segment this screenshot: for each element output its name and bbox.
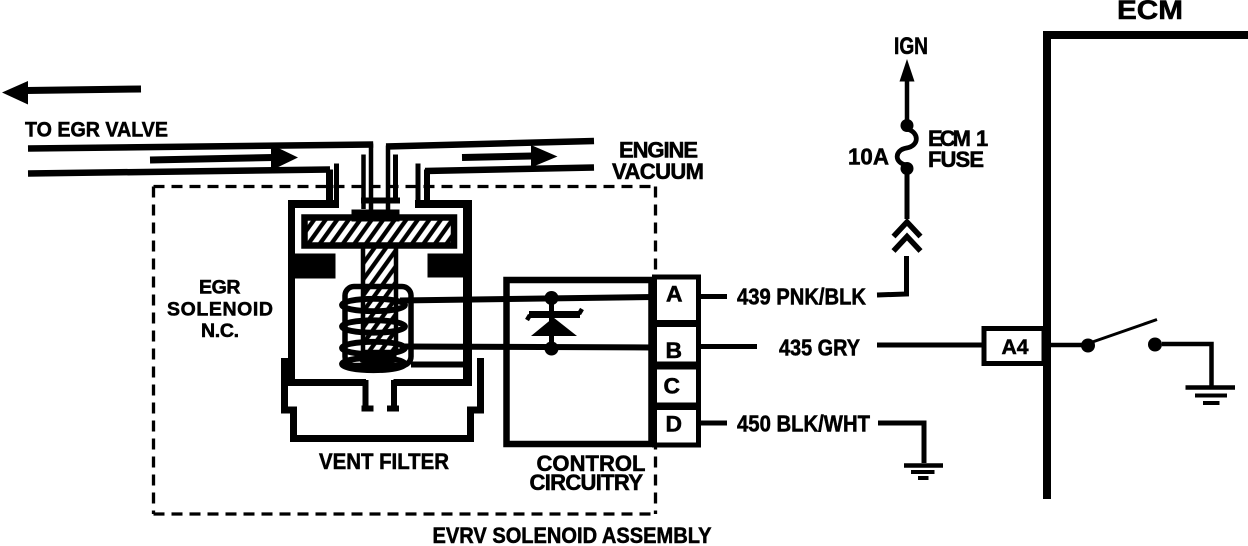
pipe: engine vacuum upper wall [386, 141, 594, 147]
svg-text:B: B [666, 338, 683, 363]
svg-text:D: D [666, 412, 683, 437]
connector: terminal C [655, 367, 699, 405]
solenoid U1: tube base bar [361, 198, 400, 204]
connector: ECM pin A4 box [984, 329, 1044, 364]
solenoid U1: stem cap joining tubes to armature [352, 210, 400, 222]
svg-text:IGN: IGN [894, 33, 928, 60]
svg-text:CIRCUITRY: CIRCUITRY [530, 470, 644, 495]
node: ENGINE VACUUM label [612, 138, 704, 185]
node: CONTROL CIRCUITRY label [530, 451, 646, 495]
svg-text:FUSE: FUSE [928, 147, 984, 172]
wire: 435 GRY to ECM pin A4 [877, 343, 983, 348]
ground: 450 BLK/WHT ground symbol [904, 466, 943, 479]
coil L1: winding turns [342, 299, 405, 370]
wire: chevrons to fuse [905, 173, 910, 219]
wire: fuse to IGN arrow [900, 59, 915, 120]
node: ECM 1 FUSE label [928, 126, 988, 172]
connector: terminal D [655, 408, 699, 446]
svg-text:ECM: ECM [1117, 0, 1183, 25]
solenoid U1: plunger stem (hatched) [363, 245, 396, 352]
connector: in-line connector chevrons [894, 222, 921, 251]
svg-text:N.C.: N.C. [201, 320, 239, 342]
svg-text:435 GRY: 435 GRY [779, 335, 860, 361]
svg-text:450 BLK/WHT: 450 BLK/WHT [737, 411, 870, 437]
vent filter housing [285, 358, 481, 439]
ground: ECM switch ground symbol [1186, 388, 1236, 404]
control circuitry box U2 [507, 280, 652, 444]
connector: terminal B [655, 325, 699, 365]
wire: flow arrow inside engine vacuum pipe [462, 145, 558, 168]
solenoid U1: left pole piece (solid) [290, 254, 336, 279]
ground: EVRV solenoid assembly dashed boundary box [154, 187, 657, 515]
wire: terminal D stub [699, 421, 727, 426]
svg-text:439 PNK/BLK: 439 PNK/BLK [737, 284, 866, 310]
solenoid U1: valve seat (solid) [360, 350, 397, 363]
svg-text:EVRV SOLENOID ASSEMBLY: EVRV SOLENOID ASSEMBLY [433, 523, 712, 546]
connector: terminal A [655, 277, 699, 323]
wire: 439 PNK/BLK to fuse [877, 256, 907, 295]
pipe: solenoid port tube walls [330, 144, 428, 211]
wire: coil to terminal A [400, 297, 654, 301]
pipe: engine vacuum lower wall [425, 168, 594, 172]
wire: flow arrow to EGR valve (large left-pointing arrow) [2, 81, 141, 105]
wire: flow arrow inside left pipe [150, 145, 298, 171]
solenoid U1: armature plate (hatched) [305, 218, 455, 246]
svg-text:10A: 10A [848, 144, 889, 170]
svg-text:EGR: EGR [199, 277, 241, 299]
fuse F1: ECM 1 fuse 10A [897, 119, 916, 175]
solenoid U1: inner bobbin frame [345, 287, 411, 366]
node: EGR SOLENOID N.C. label [167, 277, 273, 343]
ECM boundary line [1047, 35, 1248, 499]
svg-text:C: C [664, 374, 681, 399]
svg-text:VACUUM: VACUUM [612, 159, 704, 184]
solenoid U1: outer body walls [288, 203, 472, 409]
solenoid U1: right pole piece (solid) [428, 254, 473, 278]
diode D1: suppression zener across coil [527, 291, 582, 356]
wire: terminal B stub [699, 344, 757, 349]
pipe: to EGR valve upper wall [28, 145, 373, 149]
switch SW1: internal ECM driver switch [1048, 320, 1162, 353]
pipe: to EGR valve lower wall [28, 170, 330, 174]
wire: coil to terminal B [400, 347, 654, 348]
svg-text:SOLENOID: SOLENOID [167, 299, 273, 321]
wire: switch to ground [1162, 344, 1212, 387]
svg-text:TO EGR VALVE: TO EGR VALVE [25, 119, 168, 142]
wire: terminal A stub [699, 294, 727, 299]
wire: 450 BLK/WHT to ground [878, 423, 924, 463]
svg-text:A: A [666, 282, 683, 307]
svg-text:VENT FILTER: VENT FILTER [319, 449, 449, 474]
svg-text:A4: A4 [1002, 336, 1029, 359]
